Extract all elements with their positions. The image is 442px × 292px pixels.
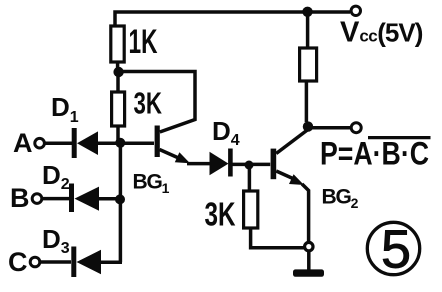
svg-text:B: B (10, 183, 30, 213)
diode D2 cathode bar (69, 184, 74, 213)
node top-rail junction (302, 7, 312, 17)
transistor BG1 emitter arrow (175, 152, 190, 163)
wire D4 to BG2 base (233, 163, 271, 167)
diode D1 triangle (77, 131, 98, 155)
svg-text:D3: D3 (42, 224, 70, 257)
svg-text:D4: D4 (212, 116, 240, 149)
wire 1K bottom lead (116, 62, 120, 70)
resistor R4 pull-up lead from rail (306, 14, 310, 48)
wire top supply rail (115, 12, 350, 26)
wire 3K lower bottom lead (251, 228, 305, 248)
svg-text:D1: D1 (51, 92, 79, 126)
transistor BG2 collector line (276, 130, 308, 154)
diode D4 cathode bar (228, 149, 233, 177)
diode D1 cathode bar (72, 128, 77, 158)
transistor BG1 emitter line (160, 150, 181, 159)
overbar of A.B.C (368, 136, 431, 139)
wire junction to 3K lower (248, 165, 252, 191)
input C terminal (30, 257, 40, 267)
output terminal (351, 123, 361, 133)
resistor R3 3K (244, 191, 258, 228)
transistor BG2 emitter arrow (289, 174, 304, 185)
svg-text:C: C (8, 247, 28, 277)
wire input A (44, 141, 74, 145)
node bus junction B (115, 194, 125, 204)
figure number circle (367, 222, 419, 274)
diode D3 triangle (77, 250, 102, 274)
svg-text:BG2: BG2 (322, 186, 359, 212)
input A terminal (35, 138, 45, 148)
wire 3K bottom lead (116, 126, 120, 143)
wire D1 to base node (98, 141, 154, 145)
wire input C (40, 260, 71, 264)
input B terminal (32, 194, 42, 204)
wire BG2 emitter down to ground node (302, 184, 309, 243)
wire input B (42, 197, 71, 201)
node base junction A (115, 138, 125, 148)
wire output (312, 126, 351, 130)
Vcc terminal (351, 6, 360, 15)
svg-text:A: A (13, 128, 33, 158)
diode D4 triangle (210, 152, 229, 175)
node BG2 base junction (245, 161, 254, 170)
svg-text:3K: 3K (205, 196, 236, 233)
resistor R2 3K (112, 92, 125, 126)
node emitter-ground junction (305, 242, 313, 250)
node junction below R1 (113, 67, 123, 77)
svg-text:D2: D2 (42, 160, 70, 193)
transistor BG2 body bar (271, 149, 277, 180)
diode D3 cathode bar (71, 247, 76, 278)
wire from node to BG1 collector (121, 72, 195, 133)
resistor R4 (300, 48, 317, 81)
diode D2 triangle (75, 187, 100, 211)
ground symbol (293, 269, 324, 276)
svg-text:5: 5 (381, 220, 411, 280)
node output junction (303, 121, 313, 131)
wire R4 bottom to output node (305, 81, 309, 122)
transistor BG1 body bar (155, 126, 160, 158)
svg-text:1K: 1K (129, 23, 158, 61)
svg-text:Vcc(5V): Vcc(5V) (340, 17, 423, 49)
svg-text:BG1: BG1 (133, 171, 170, 197)
wire BG1 emitter to D4 (187, 162, 210, 166)
wire common vertical diode bus (119, 143, 123, 262)
wire D2 to bus (99, 197, 120, 201)
transistor BG2 emitter line (276, 171, 294, 179)
wire ground lead (307, 251, 311, 271)
svg-text:3K: 3K (134, 86, 163, 121)
resistor R1 1K (111, 26, 124, 62)
wire node to 3K top (116, 74, 120, 92)
wire D3 to bus (101, 260, 122, 264)
svg-text:P=A·B·C: P=A·B·C (320, 136, 429, 172)
